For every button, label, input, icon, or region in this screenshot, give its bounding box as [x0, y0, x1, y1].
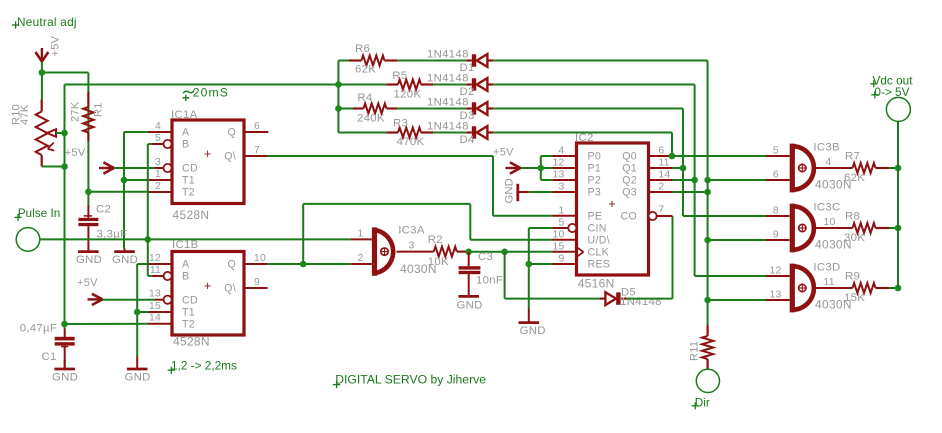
wire R1 to T2 and C2 — [88, 141, 148, 205]
svg-text:Neutral adj: Neutral adj — [17, 15, 77, 29]
wire timing net R10 wiper (20mS node) — [65, 85, 339, 325]
diode D3 1N4148 — [427, 97, 493, 122]
junction RES IC2 — [526, 261, 533, 268]
svg-text:+5V: +5V — [65, 147, 86, 159]
diode D4 1N4148 — [427, 121, 493, 146]
svg-text:1N4148: 1N4148 — [427, 121, 469, 133]
svg-text:CD: CD — [182, 163, 198, 175]
svg-text:T1: T1 — [182, 175, 195, 187]
svg-text:A: A — [182, 259, 190, 271]
svg-text:4: 4 — [155, 121, 161, 132]
svg-text:15: 15 — [553, 242, 565, 253]
wire D1 net to Q3 column — [493, 61, 707, 181]
svg-text:13: 13 — [770, 289, 782, 300]
pin 12 IC3D — [766, 265, 790, 276]
wire R6 to D1 — [397, 60, 466, 62]
svg-text:Q2: Q2 — [622, 175, 637, 187]
pad Dir — [692, 369, 720, 409]
monostable IC1B (4528N) — [172, 239, 244, 349]
svg-text:CLK: CLK — [588, 247, 610, 259]
svg-text:IC3C: IC3C — [813, 202, 840, 214]
wire B IC1A vertical — [148, 144, 152, 239]
capacitor C3 10nF — [459, 251, 504, 295]
svg-text:120K: 120K — [394, 88, 422, 100]
svg-text:1N4148: 1N4148 — [620, 296, 662, 308]
svg-text:R11: R11 — [689, 341, 701, 361]
counter IC2 (4516N) — [575, 132, 649, 290]
svg-text:B: B — [182, 271, 189, 283]
junction R9/Vdc — [895, 285, 902, 292]
svg-text:Q: Q — [227, 127, 236, 139]
pin 2 IC3A — [351, 253, 372, 264]
pin 10 UD IC2 — [553, 230, 577, 241]
wire Q3 to D1 column — [673, 191, 708, 193]
svg-text:30K: 30K — [844, 232, 865, 244]
svg-text:13: 13 — [553, 170, 565, 181]
xor gate IC3C (4030N) — [792, 202, 852, 253]
svg-text:5: 5 — [559, 218, 565, 229]
svg-text:CIN: CIN — [588, 223, 607, 235]
pin 13 IC3D — [766, 289, 790, 300]
svg-text:13: 13 — [149, 289, 161, 300]
xor gate IC3D (4030N) — [792, 262, 852, 313]
svg-text:3: 3 — [559, 182, 565, 193]
svg-text:1N4148: 1N4148 — [427, 97, 469, 109]
svg-text:R8: R8 — [845, 211, 860, 223]
junction Q0/D4 — [669, 153, 676, 160]
svg-text:IC2: IC2 — [575, 132, 594, 144]
svg-text:1: 1 — [155, 169, 161, 180]
svg-text:9: 9 — [254, 277, 260, 288]
svg-text:8: 8 — [773, 205, 779, 216]
svg-text:P3: P3 — [588, 187, 602, 199]
junction C3 node — [465, 249, 472, 256]
svg-text:12: 12 — [770, 265, 782, 276]
xor gate IC3A (4030N) — [375, 224, 437, 276]
svg-text:1,2 -> 2,2ms: 1,2 -> 2,2ms — [171, 358, 237, 372]
svg-text:R3: R3 — [393, 118, 408, 130]
junction array row3 — [335, 105, 342, 112]
svg-text:1N4148: 1N4148 — [427, 73, 469, 85]
svg-text:Q\: Q\ — [224, 151, 236, 163]
svg-text:6: 6 — [254, 121, 260, 132]
junction IC3C pin9 — [704, 237, 711, 244]
svg-text:2: 2 — [155, 181, 161, 192]
svg-text:IC3D: IC3D — [813, 262, 840, 274]
svg-text:3: 3 — [155, 157, 161, 168]
junction Q1/D3 — [680, 165, 687, 172]
svg-text:Dir: Dir — [695, 396, 710, 410]
wire R4 to D3 — [397, 108, 466, 110]
ground GND below C2 — [76, 250, 102, 266]
svg-text:470K: 470K — [397, 136, 425, 148]
svg-text:10: 10 — [824, 217, 836, 228]
wire Pulse In to IC3A pin1 — [40, 238, 351, 240]
wire D2 net to Q2 column — [493, 85, 694, 277]
svg-text:10nF: 10nF — [476, 275, 503, 287]
wire Q IC1B to U/D IC2 — [303, 204, 552, 264]
svg-text:GND: GND — [504, 178, 516, 203]
wire Q0 to IC3B pin5 — [672, 155, 766, 157]
ground GND IC1B — [125, 357, 151, 384]
svg-text:IC3B: IC3B — [813, 142, 840, 154]
svg-text:4: 4 — [559, 146, 565, 157]
svg-text:0-> 5V: 0-> 5V — [874, 85, 909, 99]
wire +5V to R10 and R1 — [42, 62, 89, 142]
svg-text:3: 3 — [409, 241, 415, 252]
svg-text:Q1: Q1 — [622, 163, 637, 175]
ground GND IC1A — [112, 249, 138, 267]
junction IC3D pin13 — [704, 297, 711, 304]
svg-text:A: A — [182, 127, 190, 139]
svg-text:C1: C1 — [42, 351, 57, 363]
pin 9 IC3C — [766, 229, 790, 240]
wire array to R3 — [338, 132, 386, 134]
net label Neutral adj — [12, 15, 77, 29]
svg-text:Pulse In: Pulse In — [18, 206, 61, 220]
wire +5V to P0 P1 P2 — [521, 156, 553, 180]
svg-text:10K: 10K — [428, 256, 449, 268]
pin 6 Q0 IC2 — [649, 146, 673, 157]
wire D4 net to Q0 column — [493, 133, 672, 157]
svg-text:CD: CD — [182, 295, 198, 307]
svg-text:4528N: 4528N — [173, 208, 210, 222]
svg-text:15K: 15K — [844, 292, 865, 304]
junction Pulse/B net — [145, 236, 152, 243]
pin 13 CD IC1B — [149, 289, 172, 304]
svg-text:27K: 27K — [70, 101, 82, 122]
wire +5V to CD IC1A — [114, 167, 155, 169]
pin 14 Q2 IC2 — [649, 170, 673, 181]
svg-text:5: 5 — [155, 133, 161, 144]
wire R3 to D4 — [433, 132, 466, 134]
svg-text:4528N: 4528N — [173, 335, 210, 349]
resistor R8 30K — [844, 211, 889, 245]
pin 15 T1 IC1B — [148, 301, 172, 312]
wire D5 to CO — [627, 216, 673, 299]
wire resistor array common bus — [338, 61, 349, 133]
ground GND below C3 — [457, 295, 483, 311]
diode D2 1N4148 — [427, 73, 493, 98]
wire Vdc out bus — [897, 121, 899, 288]
junction R8/Vdc — [895, 225, 902, 232]
wire CIN RES to GND — [529, 228, 553, 309]
resistor R7 62K — [844, 151, 889, 185]
svg-text:6: 6 — [658, 146, 664, 157]
xor gate IC3B (4030N) — [792, 142, 852, 193]
net label DIGITAL SERVO by Jiherve — [333, 373, 486, 389]
pin 11 Q1 IC2 — [649, 158, 673, 169]
svg-text:R7: R7 — [845, 151, 860, 163]
resistor R6 62K — [349, 43, 397, 76]
svg-text:GND: GND — [520, 325, 546, 337]
wire array to R5 — [338, 84, 386, 86]
pin 14 T2 IC1B — [148, 313, 172, 324]
wire R10 bottom — [42, 166, 65, 168]
diode D5 1N4148 — [599, 286, 661, 307]
net label 1,2 -> 2,2ms — [168, 358, 237, 374]
svg-text:62K: 62K — [355, 64, 376, 76]
wire A+T1 ground net IC1B — [137, 264, 148, 357]
wire R5 to D2 — [433, 84, 466, 86]
pin 12 P1 IC2 — [553, 158, 577, 169]
wire D3 net to Q1 column — [493, 109, 683, 217]
svg-text:+5V: +5V — [50, 35, 62, 56]
wire CLK net to D5 — [505, 252, 600, 299]
pin 11 IC3D output — [814, 277, 852, 288]
svg-text:D4: D4 — [460, 134, 475, 146]
resistor R1 — [70, 92, 105, 142]
svg-text:IC1B: IC1B — [172, 239, 199, 251]
pin 6 Q IC1A stub — [244, 121, 268, 132]
junction T2 IC1B — [61, 321, 68, 328]
wire pot net to T2 IC1B and C1 — [65, 324, 149, 329]
wire D1/Q3 column down — [707, 180, 709, 325]
net label 20mS — [182, 85, 229, 101]
svg-text:Q: Q — [227, 259, 236, 271]
svg-text:5: 5 — [773, 145, 779, 156]
svg-text:GND: GND — [52, 372, 78, 384]
pin 9 RES IC2 — [553, 254, 577, 265]
pad Vdc out — [870, 74, 913, 122]
supply +5V (V1) — [36, 35, 62, 61]
junction R10 bottom — [61, 163, 68, 170]
monostable IC1A (4528N) — [171, 109, 244, 222]
svg-text:T1: T1 — [182, 307, 195, 319]
svg-text:11: 11 — [658, 158, 669, 169]
svg-text:GND: GND — [457, 299, 483, 311]
svg-text:+: + — [608, 197, 615, 211]
svg-text:12: 12 — [149, 253, 161, 264]
svg-text:+5V: +5V — [77, 277, 98, 289]
junction array row2 — [335, 81, 342, 88]
junction T1 IC1A — [121, 177, 128, 184]
pin 2 Q3 IC2 — [649, 182, 673, 193]
ground GND below IC2 — [519, 309, 546, 338]
pin 7 CO IC2 — [649, 204, 673, 220]
svg-text:+5V: +5V — [493, 146, 514, 158]
svg-text:4516N: 4516N — [578, 276, 615, 290]
svg-text:12: 12 — [553, 158, 565, 169]
capacitor C2 3.3uF — [78, 204, 127, 251]
svg-text:240K: 240K — [357, 112, 385, 124]
wire Q IC1B to IC3A pin2 — [268, 263, 351, 265]
svg-text:7: 7 — [254, 145, 260, 156]
resistor R2 10K — [428, 234, 469, 268]
svg-text:6: 6 — [773, 169, 779, 180]
svg-text:R6: R6 — [355, 43, 370, 55]
junction R10 wiper — [61, 130, 68, 137]
svg-text:DIGITAL SERVO by Jiherve: DIGITAL SERVO by Jiherve — [335, 373, 486, 387]
svg-text:T2: T2 — [182, 187, 195, 199]
pin 3 IC3A output — [397, 241, 434, 252]
svg-text:GND: GND — [125, 372, 151, 384]
wire R9 to Vdc — [889, 287, 898, 289]
svg-text:1: 1 — [358, 228, 364, 239]
svg-text:11: 11 — [824, 277, 835, 288]
wire to IC3D pin13 — [708, 299, 766, 301]
svg-text:C3: C3 — [478, 251, 493, 263]
resistor R9 15K — [844, 271, 889, 305]
junction D1/IC3B6 — [704, 177, 711, 184]
svg-text:20mS: 20mS — [193, 85, 229, 99]
pin 4 P0 IC2 — [553, 146, 577, 157]
diode D1 1N4148 — [427, 49, 493, 74]
svg-text:+: + — [204, 147, 211, 161]
svg-text:9: 9 — [559, 254, 565, 265]
pin 4 IC3B output — [814, 157, 852, 168]
svg-text:R2: R2 — [428, 234, 443, 246]
junction T1 IC1B — [134, 309, 141, 316]
potentiometer R10 — [11, 100, 65, 167]
wire D3 net to IC3C pin8 — [683, 215, 766, 217]
pin 10 Q IC1B — [244, 253, 268, 264]
svg-text:P2: P2 — [588, 175, 602, 187]
svg-text:62K: 62K — [844, 172, 865, 184]
svg-text:11: 11 — [150, 265, 161, 276]
wire Qbar IC1A to PE IC2 — [268, 156, 553, 216]
pin 4 A IC1A — [148, 121, 172, 132]
resistor R3 470K — [387, 118, 434, 149]
capacitor C1 0.47uF — [20, 323, 75, 369]
pin 1 T1 IC1A — [148, 169, 172, 180]
wire B IC1B vertical — [148, 239, 152, 276]
svg-text:15: 15 — [149, 301, 161, 312]
svg-text:CO: CO — [621, 211, 638, 223]
svg-text:IC3A: IC3A — [398, 224, 425, 236]
pin 15 CLK IC2 — [553, 242, 577, 253]
svg-text:1N4148: 1N4148 — [427, 49, 469, 61]
pin 1 PE IC2 — [553, 206, 577, 217]
pin 11 B IC1B — [150, 265, 172, 280]
pin 7 Qbar IC1A — [244, 145, 268, 156]
svg-text:IC1A: IC1A — [171, 109, 198, 121]
pin 6 IC3B — [766, 169, 790, 180]
svg-text:T2: T2 — [182, 319, 195, 331]
svg-text:B: B — [182, 139, 189, 151]
svg-text:R4: R4 — [357, 92, 372, 104]
pin 5 CIN IC2 — [553, 218, 577, 232]
pin 10 IC3C output — [814, 217, 852, 228]
svg-text:14: 14 — [149, 313, 161, 324]
svg-text:Q3: Q3 — [622, 187, 637, 199]
pin 8 IC3C — [766, 205, 790, 216]
pin 3 CD IC1A — [155, 157, 172, 172]
wire Q1 to D3 column — [673, 167, 684, 169]
svg-text:9: 9 — [773, 229, 779, 240]
wire R7 to Vdc — [889, 167, 898, 169]
svg-text:2: 2 — [358, 253, 364, 264]
junction CLK node — [501, 249, 508, 256]
svg-text:10: 10 — [254, 253, 266, 264]
pin 13 P2 IC2 — [553, 170, 577, 181]
wire R8 to Vdc — [889, 227, 898, 229]
svg-text:0,47µF: 0,47µF — [20, 323, 58, 335]
resistor R11 — [689, 325, 714, 369]
svg-text:+: + — [204, 279, 211, 293]
ground GND below C1 — [52, 360, 78, 384]
svg-text:R9: R9 — [845, 271, 860, 283]
supply +5V arrow IC1B — [77, 277, 103, 305]
wire D2 net to IC3D pin12 — [695, 275, 766, 277]
svg-text:1: 1 — [559, 206, 565, 217]
wire to IC3C pin9 — [708, 239, 766, 241]
pad Pulse In — [14, 206, 60, 251]
wire GND to P3 — [529, 191, 552, 193]
svg-text:R1: R1 — [93, 102, 105, 117]
svg-text:PE: PE — [588, 211, 603, 223]
resistor R5 120K — [387, 70, 434, 100]
svg-text:U/D\: U/D\ — [588, 235, 610, 247]
wire +5V to CD IC1B — [103, 299, 156, 301]
pin 1 IC3A — [351, 228, 372, 239]
svg-text:10: 10 — [553, 230, 565, 241]
wire array to R4 — [338, 108, 353, 110]
junction Q3/D1 — [704, 189, 711, 196]
svg-text:R5: R5 — [392, 70, 407, 82]
svg-text:4: 4 — [826, 157, 832, 168]
pin 9 Qbar IC1B stub — [244, 277, 268, 288]
wire Q2 to D2 column — [673, 179, 695, 181]
pin 12 A IC1B — [148, 253, 172, 264]
svg-text:7: 7 — [658, 204, 664, 215]
supply +5V arrow IC1A — [65, 147, 114, 174]
pin 5 B IC1A — [148, 133, 172, 148]
wire A+T1 ground net IC1A — [124, 132, 148, 249]
svg-text:47K: 47K — [19, 104, 31, 125]
ground GND at P3 — [504, 178, 530, 203]
junction Q IC1B — [300, 261, 307, 268]
svg-text:GND: GND — [76, 254, 102, 266]
pin 3 P3 IC2 — [553, 182, 577, 193]
svg-text:2: 2 — [658, 182, 664, 193]
wire D1 net to IC3B pin6 — [708, 179, 766, 181]
svg-text:RES: RES — [588, 259, 611, 271]
svg-text:Q\: Q\ — [224, 283, 236, 295]
pin 2 T2 IC1A — [148, 181, 172, 192]
wire R2 to CLK net — [469, 251, 553, 253]
svg-text:GND: GND — [112, 254, 138, 266]
junction +5V node — [39, 69, 46, 76]
svg-text:Q0: Q0 — [622, 151, 637, 163]
svg-text:P0: P0 — [588, 151, 602, 163]
junction Q2/D2 — [691, 177, 698, 184]
resistor R4 240K — [353, 92, 397, 124]
junction +5V P1 — [538, 165, 545, 172]
supply +5V arrow IC2 — [493, 146, 521, 173]
pin 5 IC3B — [766, 145, 790, 156]
svg-text:14: 14 — [658, 170, 670, 181]
junction R7/Vdc — [895, 165, 902, 172]
junction T2 IC1A — [85, 189, 92, 196]
svg-text:P1: P1 — [588, 163, 602, 175]
svg-text:C2: C2 — [96, 204, 111, 216]
